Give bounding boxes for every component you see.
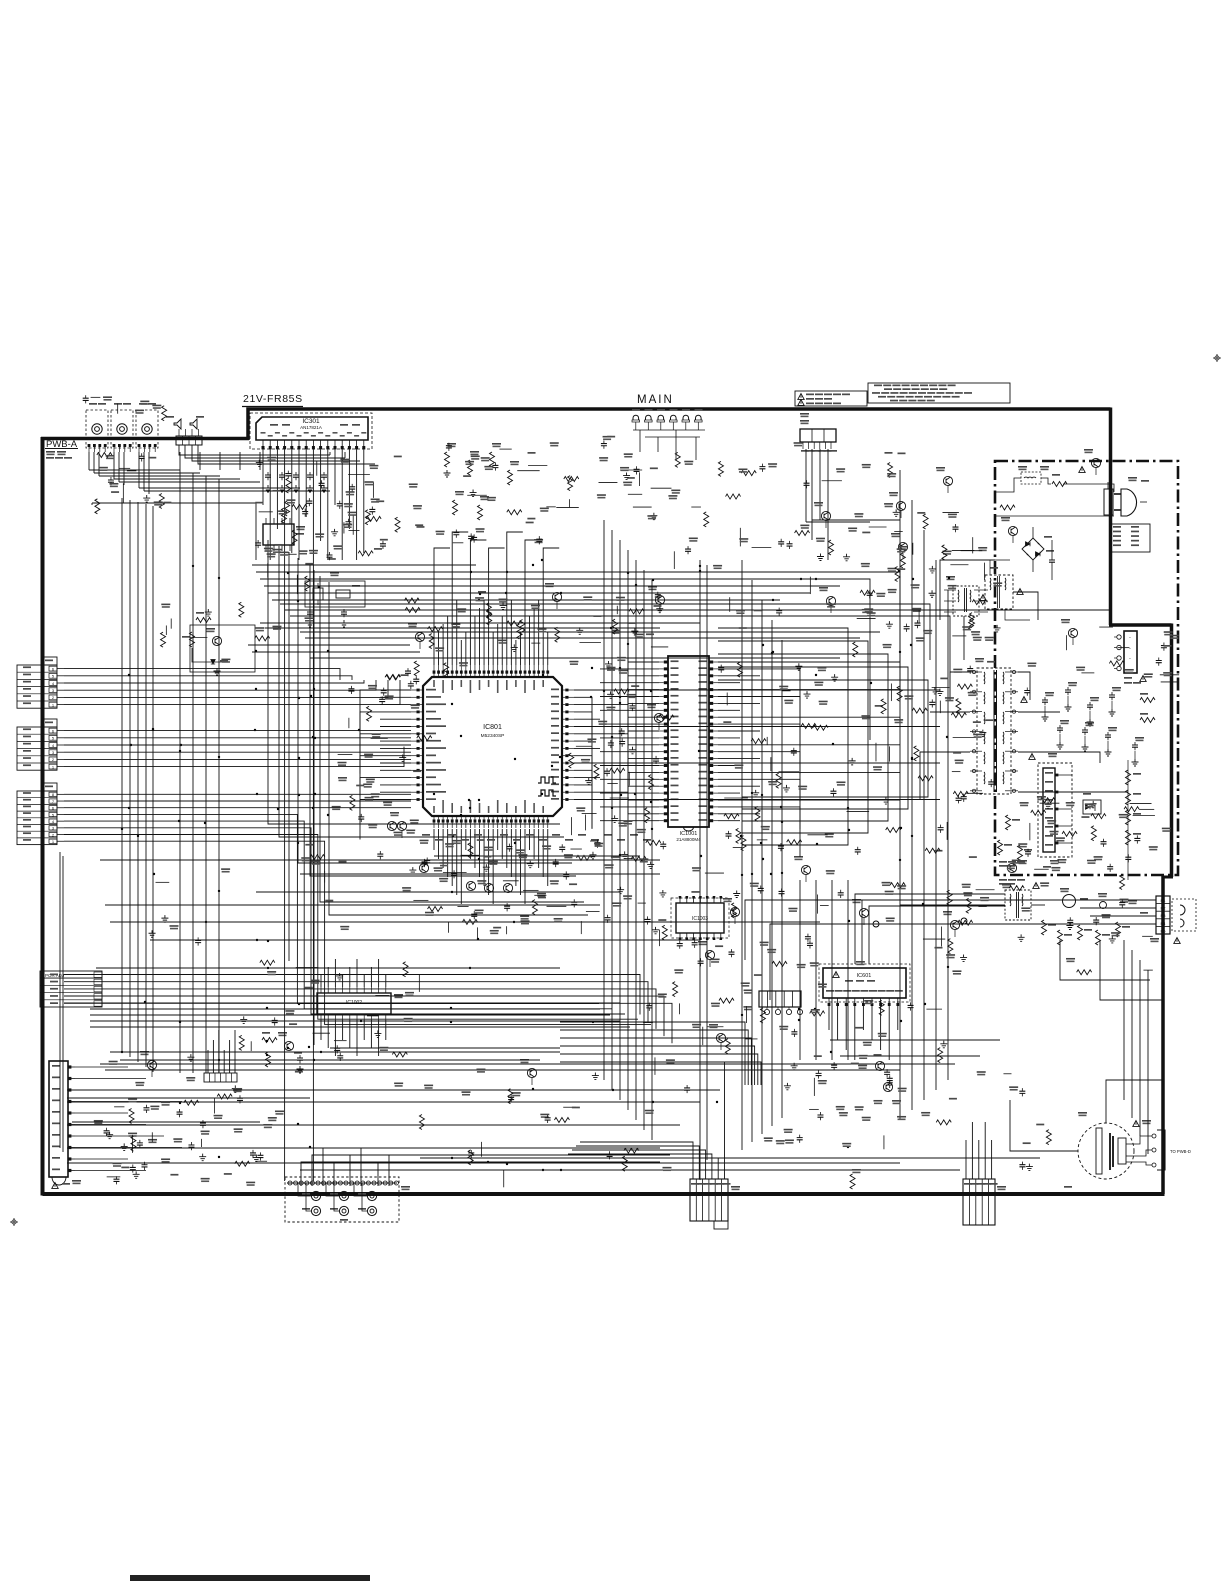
wire: [971, 1122, 973, 1179]
wire: [724, 1062, 726, 1179]
wire: [781, 640, 783, 1118]
wire: [64, 814, 599, 1003]
wire: [148, 452, 150, 494]
wire: [218, 479, 220, 1073]
wire: [300, 873, 660, 875]
wire: [718, 779, 800, 829]
wire: [888, 1006, 890, 1060]
cluster below IC801 dense: [523, 889, 538, 891]
wire: [360, 778, 411, 818]
svg-text:IC301: IC301: [302, 418, 320, 425]
wire: [628, 673, 659, 703]
wire: [718, 641, 868, 833]
wire: [1018, 672, 1030, 700]
wire: [560, 1054, 758, 1085]
wire: [360, 756, 411, 796]
wire: [329, 582, 588, 915]
cluster left of dashdot: [956, 699, 961, 714]
wire: [310, 564, 576, 876]
cluster top right mid: [969, 615, 974, 630]
wire: [118, 452, 120, 482]
wire: [100, 1063, 955, 1065]
wire: [920, 752, 970, 800]
wire: [963, 616, 965, 660]
wire: [492, 632, 494, 665]
wire: [223, 1050, 225, 1073]
wire: [1018, 752, 1100, 763]
wire: [334, 1162, 630, 1186]
wire: [276, 450, 278, 529]
wire: [1013, 592, 1038, 620]
wire: [342, 975, 344, 987]
wire: [143, 452, 145, 491]
wire: [628, 742, 659, 772]
wire: [380, 726, 411, 728]
wire: [574, 689, 940, 691]
wire: [356, 959, 358, 987]
transistor Q201: [821, 511, 830, 520]
wire: [501, 616, 503, 665]
wire: [837, 1006, 839, 1040]
transistor Q602: [716, 1033, 725, 1042]
wire: [64, 1002, 620, 1004]
wire: [718, 730, 760, 732]
wire: [67, 1147, 660, 1149]
wire: [978, 1140, 980, 1179]
wire: [1139, 960, 1141, 1136]
wire: [574, 762, 940, 764]
wire: [91, 503, 93, 505]
wire: [543, 548, 559, 665]
cluster bottom mid sparse: [607, 1151, 613, 1159]
wire: [718, 661, 900, 663]
cluster audio out parts below IC301: [274, 544, 282, 546]
wire: [745, 900, 1156, 960]
wire: [718, 792, 740, 794]
wire: [718, 737, 740, 739]
node label THIS AREA IS HOT SIDE: [999, 861, 1007, 863]
wire: [840, 1055, 980, 1057]
wire: [280, 604, 930, 660]
svg-text:21V-FR85S: 21V-FR85S: [243, 393, 303, 405]
wire: [256, 572, 900, 620]
wire: [900, 904, 1005, 906]
connector PSE1001 P/S REG header: [800, 429, 836, 442]
wire: [290, 616, 950, 700]
wire: [62, 856, 64, 1152]
wire: [483, 829, 485, 886]
wire: [600, 668, 659, 670]
wire: [635, 560, 637, 1120]
cluster bottom band specks: [394, 1083, 403, 1087]
wire: [510, 600, 512, 665]
wire: [67, 1162, 900, 1164]
wire: [64, 680, 376, 690]
wire: [64, 751, 411, 753]
wire: [67, 1124, 680, 1126]
node power input fuse F901 and filter: [1018, 466, 1027, 470]
wire: [438, 632, 440, 665]
wire: [313, 570, 315, 1045]
transistor Q901 startup cluster: [1006, 815, 1011, 830]
cluster IC1001 right: [783, 785, 790, 792]
node small circle junction B: [961, 918, 967, 924]
wire: [334, 450, 336, 505]
wire: [442, 624, 444, 665]
wire: [600, 765, 659, 767]
wire: [378, 1020, 380, 1056]
wire: [574, 718, 600, 720]
wire: [94, 472, 200, 474]
cluster mid-left sparse: [205, 609, 212, 616]
wire: [99, 475, 220, 477]
cluster IC1001 far right: [882, 797, 889, 804]
wire: [576, 1146, 699, 1179]
wire: [260, 579, 870, 640]
wire: [718, 680, 928, 797]
op-amp IC1002 delay line: [317, 993, 391, 1014]
transistor Q1005: [943, 476, 952, 485]
wire: [574, 697, 592, 741]
wire: [718, 785, 760, 787]
wire: [64, 680, 400, 705]
wire: [718, 628, 848, 845]
wire: [113, 452, 115, 479]
wire: [483, 600, 485, 665]
wire: [312, 450, 314, 1181]
connector P901 right edge to deflection: [1156, 896, 1170, 934]
node part marker: [448, 834, 456, 836]
svg-text:P2: P2: [1161, 906, 1167, 911]
wire: [123, 452, 125, 485]
wire: [560, 1046, 755, 1085]
svg-text:IC601: IC601: [857, 973, 872, 979]
connector CN speaker 4-pin: [176, 436, 202, 445]
wire: [96, 967, 560, 969]
cluster power mid: [1164, 631, 1173, 635]
wire: [524, 829, 526, 904]
transistor Q803: [655, 595, 664, 604]
wire: [547, 829, 549, 886]
wire: [899, 470, 901, 1120]
transistor Q203 cluster left-mid: [212, 636, 221, 645]
wire: [947, 590, 949, 1080]
transistor Q904: [859, 908, 868, 917]
wire: [572, 1150, 706, 1179]
op-amp IC601 TA8403K vertical output: [823, 968, 906, 998]
wire: [378, 959, 380, 987]
wire: [1018, 791, 1128, 793]
wire: [718, 682, 740, 684]
node label THIS AREA IS COLD SIDE: [999, 879, 1007, 881]
wire: [651, 580, 653, 1140]
wire: [327, 1020, 329, 1048]
wire: [252, 564, 476, 566]
cluster mid band 860-960 left: [149, 930, 156, 937]
wire: [718, 771, 900, 773]
connector J1 top RCA jack: [86, 410, 108, 448]
wire: [105, 1069, 900, 1071]
wire: [628, 646, 659, 676]
wire: [600, 723, 659, 725]
wire: [845, 1006, 847, 1050]
wire: [855, 894, 1005, 964]
wire: [329, 452, 331, 455]
wire: [320, 576, 584, 902]
wire: [492, 829, 494, 904]
wire: [1060, 940, 1150, 980]
wire: [718, 667, 908, 809]
wire: [538, 600, 540, 665]
node part marker: [466, 881, 475, 890]
connector CN4 POR ADJ service: [40, 971, 102, 1007]
wire: [1090, 915, 1156, 917]
wire: [574, 747, 600, 749]
wire: [718, 752, 800, 802]
wire hot/cold area dash-dot boundary: [995, 461, 1178, 875]
cluster right of PS REG: [862, 532, 870, 534]
wire: [64, 982, 648, 1022]
wire: [349, 1020, 351, 1048]
node part marker: [578, 834, 586, 836]
wire: [320, 450, 322, 541]
wire: [380, 740, 411, 742]
wire: [361, 1148, 650, 1186]
wire: [515, 640, 517, 665]
wire: [479, 829, 481, 877]
wire: [501, 829, 503, 859]
wire: [469, 829, 471, 859]
wire: [264, 585, 840, 587]
wire: [334, 959, 336, 987]
node part marker: [461, 839, 469, 841]
wire: [88, 452, 90, 470]
capacitor row under IC301: [265, 472, 271, 480]
wire: [488, 829, 490, 895]
svg-text:P5: P5: [1161, 928, 1167, 933]
wire: [718, 799, 900, 801]
transistor Q601: [826, 596, 835, 605]
wire: [219, 452, 221, 470]
wire: [718, 675, 760, 677]
wire: [470, 540, 486, 665]
wire: [560, 1022, 745, 1085]
wire: [718, 669, 800, 719]
wire: [420, 904, 600, 906]
wire: [533, 608, 535, 665]
node bottom strip: [130, 1575, 370, 1581]
wire: [862, 1006, 864, 1030]
wire: [1010, 1100, 1078, 1151]
wire: [370, 1020, 372, 1048]
cluster power hot bottom: [1025, 849, 1031, 857]
wire: [628, 729, 659, 759]
wire: [1147, 970, 1149, 1154]
wire: [139, 487, 300, 489]
wire: [334, 1020, 336, 1056]
wire: [344, 452, 346, 458]
wire: [434, 548, 450, 665]
wire: [288, 552, 290, 961]
transformer L901 degauss coil assembly: [1078, 1123, 1134, 1179]
wire: [718, 724, 800, 774]
transformer T901 SMPS main: [977, 668, 1011, 794]
wire: [1100, 940, 1163, 1000]
wire: [600, 792, 659, 794]
wire: [611, 530, 613, 1090]
wire: [862, 900, 1005, 964]
wire: [67, 1097, 310, 1099]
wire: [574, 733, 628, 735]
wire: [574, 785, 592, 829]
transformer T902 drive: [953, 586, 979, 616]
wire: [600, 806, 659, 808]
node part marker: [435, 839, 443, 841]
wire: [600, 778, 659, 780]
wire: [64, 747, 404, 767]
node part marker: [617, 839, 625, 841]
node part marker: [526, 834, 534, 836]
wire: [380, 696, 411, 698]
node part marker: [419, 863, 428, 872]
wire: [474, 829, 476, 868]
wire: [935, 560, 937, 1090]
connector CN2 left front AV: [17, 727, 57, 770]
wire: [869, 640, 871, 740]
wire: [911, 500, 913, 1110]
wire: [869, 906, 1005, 964]
wire: [185, 445, 345, 458]
wire: [847, 880, 849, 1060]
wire: [628, 756, 659, 786]
cluster right of IC201: [343, 522, 345, 533]
node part marker: [484, 883, 493, 892]
wire: [260, 622, 700, 624]
wire: [179, 470, 181, 1073]
node jumper row J601-J606: [632, 415, 640, 422]
wire: [370, 967, 372, 987]
resistor bank power area right: [1126, 770, 1131, 785]
transistor Q805: [397, 821, 406, 830]
wire: [64, 995, 640, 997]
transistor QD1: [1091, 458, 1100, 467]
cluster STR surroundings: [1090, 801, 1097, 808]
wire: [64, 807, 411, 809]
wire: [110, 1051, 560, 1053]
wire: [854, 1006, 856, 1060]
wire: [64, 841, 651, 1024]
wire: [761, 600, 763, 1134]
wire: [64, 730, 411, 732]
node part marker: [565, 839, 573, 841]
wire: [198, 445, 375, 464]
wire: [129, 500, 131, 1057]
wire: [239, 452, 241, 470]
wire: [923, 530, 925, 1100]
wire: [192, 445, 360, 461]
node part marker: [513, 839, 521, 841]
wire: [259, 452, 261, 470]
op-amp IC301 AN17821A audio amplifier: [250, 413, 372, 449]
svg-text:21A8800M4: 21A8800M4: [676, 837, 701, 842]
node part marker: [487, 839, 495, 841]
connector CN6 bottom TO PWB-B: [690, 1179, 728, 1221]
wire: [312, 1155, 610, 1186]
wire: [360, 734, 411, 774]
node part marker: [643, 839, 651, 841]
wire: [64, 680, 388, 697]
connector CN5 CRT socket board tall connector: [49, 1061, 68, 1177]
wire: [72, 1121, 260, 1123]
transistor Q802: [552, 592, 561, 601]
wire: [380, 769, 411, 771]
svg-text:AN17821A: AN17821A: [300, 425, 322, 430]
cluster bottom right: [1023, 1142, 1031, 1144]
transformer LF901 line filter: [985, 575, 1013, 609]
wire: [100, 859, 660, 861]
node part marker: [474, 834, 482, 836]
node note box safety parts: [795, 391, 867, 406]
wire: [489, 548, 505, 665]
wire: [718, 716, 900, 718]
wire: [568, 1154, 712, 1179]
wire: [114, 478, 240, 480]
wire: [380, 747, 411, 749]
resistor cluster below top border: [447, 443, 456, 447]
cluster IC601 area: [760, 1008, 765, 1023]
transistor Q906: [1068, 628, 1077, 637]
wire: [323, 1148, 620, 1186]
wire: [574, 741, 592, 785]
wire: [529, 829, 531, 850]
wire: [268, 592, 810, 594]
wire: [64, 1003, 672, 1043]
connector A601 AV output jack block: [285, 1177, 399, 1222]
wire: [119, 481, 260, 483]
wire: [718, 702, 760, 704]
wire: [67, 1101, 700, 1103]
wire: [363, 1020, 365, 1040]
wire: [451, 829, 453, 886]
wire: [363, 975, 365, 987]
wire: [284, 450, 286, 1181]
wire: [98, 452, 100, 476]
wire jumper row bus: [633, 429, 705, 431]
wire: [420, 1157, 1040, 1159]
cluster between jumpers and PS REG: [675, 452, 680, 467]
wire: [380, 704, 411, 706]
wire: [90, 1020, 620, 1022]
transistor Q905: [950, 920, 959, 929]
wire: [940, 560, 995, 620]
wire: [64, 800, 411, 802]
wire: [144, 490, 330, 492]
wire: [199, 452, 201, 470]
node small circle junction A: [873, 921, 879, 927]
wire: [356, 450, 358, 560]
node label AC cord note box: [1110, 524, 1150, 552]
node X801 crystal filter cluster: [305, 581, 365, 607]
wire: [179, 452, 181, 470]
node part marker: [500, 834, 508, 836]
wire: [378, 1162, 660, 1186]
wire: [718, 820, 740, 822]
wire: [497, 829, 499, 850]
cluster jack labels top: [117, 404, 119, 414]
wire: [320, 1020, 322, 1040]
capacitor C905 main smoothing: [1049, 557, 1055, 565]
wire: [120, 1059, 540, 1061]
